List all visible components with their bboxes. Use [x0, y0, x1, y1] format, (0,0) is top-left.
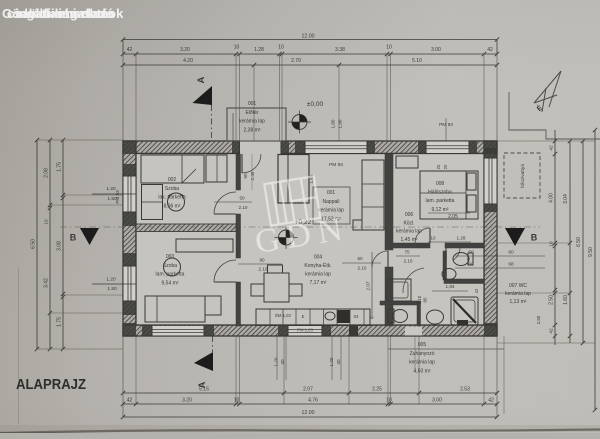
- wc sink: [442, 269, 456, 280]
- svg-text:10: 10: [431, 236, 436, 241]
- svg-text:50: 50: [239, 196, 245, 201]
- svg-text:kerámia lap: kerámia lap: [505, 291, 531, 297]
- svg-text:42: 42: [474, 288, 479, 293]
- svg-text:008: 008: [436, 181, 445, 187]
- wardrobe left szoba 002: [142, 185, 163, 220]
- left paper edge line: [18, 268, 20, 424]
- dim szoba003 door 90/2.10: [238, 263, 282, 265]
- svg-text:PM 1,03: PM 1,03: [297, 328, 313, 333]
- window top haloszoba: [426, 142, 469, 154]
- svg-text:003: 003: [166, 254, 175, 260]
- interior wall W7 (small wc horizontal): [380, 301, 417, 305]
- bed haloszoba: [420, 171, 478, 219]
- svg-text:90: 90: [243, 173, 248, 179]
- top dimension row 12.00: [123, 39, 497, 41]
- svg-text:Szoba: Szoba: [163, 263, 177, 269]
- svg-text:Hálószoba: Hálószoba: [428, 190, 452, 196]
- door entrance: [242, 154, 261, 173]
- left dim col 1.75/3.08/1.75: [62, 140, 64, 349]
- svg-text:42: 42: [488, 398, 494, 404]
- svg-text:2.08: 2.08: [44, 168, 50, 178]
- door kitchen-hall: [372, 251, 388, 267]
- desk szoba 003: [176, 239, 233, 252]
- vent block bottom wall: [349, 326, 358, 336]
- right dim col 3.04/1.60: [569, 141, 571, 343]
- kitchen counter: [256, 309, 370, 326]
- svg-text:2,50: 2,50: [536, 315, 541, 324]
- svg-text:lam. parketta: lam. parketta: [156, 272, 185, 278]
- svg-text:007 WC: 007 WC: [509, 283, 527, 289]
- svg-text:004: 004: [314, 255, 323, 261]
- svg-text:005: 005: [418, 342, 427, 348]
- door wc: [453, 248, 460, 260]
- interior wall W5 (wc/bath divider vertical): [443, 251, 447, 280]
- svg-text:10: 10: [44, 219, 49, 225]
- top dimension row segments: [123, 53, 497, 55]
- svg-text:3.42: 3.42: [44, 278, 50, 288]
- dim bath door 75/2.10: [396, 255, 420, 257]
- svg-text:80: 80: [423, 297, 428, 302]
- svg-text:10: 10: [234, 45, 240, 51]
- svg-text:lak. parketta: lak. parketta: [158, 195, 185, 201]
- left dim col 2.08/3.42: [49, 140, 51, 349]
- svg-text:±0,00: ±0,00: [307, 101, 324, 108]
- svg-text:ÉM 1,03: ÉM 1,03: [275, 313, 291, 318]
- svg-text:60: 60: [357, 256, 363, 261]
- interior wall W2 (szoba002/szoba003): [136, 224, 236, 232]
- section B line: [60, 226, 540, 228]
- svg-text:kerámia lap: kerámia lap: [409, 360, 435, 366]
- svg-text:1,90: 1,90: [338, 119, 343, 128]
- svg-text:2.10: 2.10: [239, 205, 248, 210]
- dim kitchen 2.07 vertical: [371, 252, 373, 317]
- svg-text:PM 93: PM 93: [115, 190, 120, 204]
- closet szoba 002: [206, 155, 227, 182]
- svg-text:3.04: 3.04: [563, 194, 569, 204]
- svg-text:1,80: 1,80: [331, 119, 336, 128]
- interior wall W4 (under haloszoba): [390, 243, 430, 248]
- top dimension row 4.20/2.70/5.10: [123, 64, 497, 66]
- left extension lines: [37, 139, 123, 141]
- window top nappali: [305, 142, 367, 154]
- exterior wall left: [123, 141, 136, 336]
- left dim col 6.50: [36, 140, 38, 349]
- svg-text:2.25: 2.25: [372, 387, 382, 393]
- opening bottom wall bath: [405, 327, 422, 336]
- watermark top-left overlapping site text: [2, 6, 124, 21]
- svg-text:kerámia lap: kerámia lap: [239, 119, 265, 125]
- svg-text:1.20: 1.20: [329, 357, 334, 366]
- entrance opening: [240, 140, 282, 155]
- armchair szoba 002: [168, 193, 185, 211]
- svg-text:42: 42: [549, 328, 555, 334]
- window bottom szoba003: [152, 326, 204, 336]
- svg-text:1.60: 1.60: [563, 295, 569, 305]
- dim szoba002 door 50/2.10: [214, 201, 252, 203]
- interior wall W3 (nappali/haloszoba): [385, 154, 393, 250]
- svg-text:60: 60: [468, 250, 474, 256]
- svg-text:8,06 m²: 8,06 m²: [164, 203, 181, 209]
- svg-text:2.40: 2.40: [250, 171, 255, 180]
- svg-text:2.70: 2.70: [291, 58, 301, 64]
- svg-text:2.50: 2.50: [549, 295, 555, 305]
- svg-text:001: 001: [248, 101, 257, 107]
- svg-text:60: 60: [468, 262, 474, 268]
- svg-text:ALAPRAJZ: ALAPRAJZ: [16, 376, 86, 393]
- svg-text:9,54 m²: 9,54 m²: [162, 280, 179, 286]
- svg-text:Előtér: Előtér: [245, 110, 258, 116]
- door szoba003: [214, 260, 236, 282]
- paper bottom edge: [0, 430, 600, 434]
- svg-text:3.20: 3.20: [180, 47, 190, 53]
- svg-text:2,38 m²: 2,38 m²: [244, 127, 261, 133]
- svg-text:kerámia lap: kerámia lap: [305, 272, 331, 278]
- dim kozl 10/1.28: [428, 241, 471, 243]
- bottom dimension row 12.00: [123, 416, 497, 418]
- door szoba002: [214, 192, 236, 214]
- svg-text:20: 20: [443, 164, 448, 169]
- svg-text:2,05: 2,05: [448, 214, 458, 220]
- right dim col 6.50: [582, 141, 584, 343]
- svg-text:10: 10: [386, 398, 392, 404]
- svg-text:42: 42: [549, 145, 555, 151]
- svg-text:4.20: 4.20: [183, 58, 193, 64]
- svg-text:3.38: 3.38: [335, 47, 345, 53]
- svg-text:B: B: [531, 233, 538, 243]
- svg-text:03: 03: [354, 314, 359, 319]
- svg-text:001: 001: [327, 190, 336, 196]
- svg-text:10: 10: [549, 241, 554, 247]
- svg-text:4.76: 4.76: [308, 398, 318, 404]
- section A marker bottom: [194, 352, 213, 371]
- north arrow: [534, 71, 561, 112]
- terrace line bottom right: [388, 348, 504, 350]
- svg-text:hőszivattyú: hőszivattyú: [520, 164, 526, 188]
- svg-text:1.28: 1.28: [254, 47, 264, 53]
- svg-text:1.75: 1.75: [57, 162, 63, 172]
- svg-text:6.50: 6.50: [576, 237, 582, 247]
- svg-text:3.08: 3.08: [57, 241, 63, 251]
- right dim col 9.50: [594, 130, 596, 410]
- svg-text:7,17 m²: 7,17 m²: [310, 280, 327, 286]
- svg-text:1,45 m²: 1,45 m²: [401, 237, 418, 243]
- svg-text:006: 006: [405, 212, 414, 218]
- right extension lines: [497, 140, 595, 142]
- bottom extension lines: [135, 336, 137, 404]
- exterior wall right: [484, 141, 497, 336]
- svg-text:6.50: 6.50: [31, 239, 37, 249]
- bath door arc: [403, 268, 424, 293]
- wardrobe haloszoba: [396, 156, 418, 168]
- section B marker left: [80, 228, 99, 245]
- svg-text:2.10: 2.10: [259, 267, 268, 272]
- svg-text:40: 40: [336, 359, 341, 365]
- watermark GDN logo: [247, 172, 352, 261]
- door haloszoba: [415, 228, 430, 243]
- svg-text:2.53: 2.53: [460, 387, 470, 393]
- level mark +-0,00: [292, 115, 307, 130]
- window right haloszoba: [485, 158, 497, 204]
- svg-text:20: 20: [436, 164, 441, 169]
- svg-text:2.10: 2.10: [404, 259, 413, 264]
- svg-text:2.07: 2.07: [366, 281, 371, 290]
- interior wall W6 (under wc): [444, 279, 484, 284]
- entry closet: [278, 155, 309, 204]
- right dim col 42/4.00/10/2.50/42: [554, 130, 556, 345]
- svg-text:9.50: 9.50: [588, 247, 594, 257]
- svg-text:A: A: [197, 381, 208, 388]
- svg-text:2.10: 2.10: [358, 266, 367, 271]
- svg-text:5.10: 5.10: [412, 58, 422, 64]
- floor inner edge: [136, 154, 484, 326]
- svg-text:kerámia lap: kerámia lap: [396, 229, 422, 235]
- plot boundary line: [509, 92, 600, 139]
- svg-text:42: 42: [127, 398, 133, 404]
- bath sink: [427, 310, 444, 324]
- wall piers: [123, 141, 136, 154]
- window left szoba002: [124, 176, 136, 212]
- svg-text:1,13 m²: 1,13 m²: [510, 299, 527, 305]
- svg-text:3.00: 3.00: [431, 47, 441, 53]
- bed szoba 003: [145, 296, 205, 322]
- exterior wall bottom: [123, 325, 497, 336]
- svg-text:1.20: 1.20: [106, 277, 116, 283]
- kitchen table: [264, 273, 289, 302]
- svg-text:2,10: 2,10: [417, 295, 422, 304]
- dim kitchen door 60/2.10: [342, 262, 381, 264]
- svg-text:Zuhanyozó: Zuhanyozó: [410, 351, 435, 357]
- svg-text:12.00: 12.00: [302, 410, 315, 416]
- right wc pointers: [455, 255, 545, 257]
- svg-text:Szoba: Szoba: [165, 186, 179, 192]
- svg-text:9,12 m²: 9,12 m²: [432, 207, 449, 213]
- bed szoba 002: [141, 155, 204, 183]
- svg-text:3.00: 3.00: [432, 398, 442, 404]
- room label 001 Nappali: [313, 187, 350, 224]
- svg-text:40: 40: [280, 359, 285, 365]
- nightstand szoba 003: [205, 296, 221, 315]
- svg-text:12.00: 12.00: [302, 34, 315, 40]
- dim 2.40/90 entry inner: [251, 154, 253, 190]
- svg-text:1,84: 1,84: [446, 284, 455, 289]
- window bottom kitchen: [288, 326, 322, 336]
- svg-text:Nappali: Nappali: [323, 199, 340, 205]
- exterior wall top: [123, 141, 497, 154]
- top extension lines: [135, 54, 137, 141]
- svg-text:1.20: 1.20: [274, 357, 279, 366]
- interior wall W1 (left rooms / center): [236, 154, 241, 190]
- svg-text:10: 10: [278, 45, 284, 51]
- svg-text:2.07: 2.07: [303, 387, 313, 393]
- small wc toilet: [388, 309, 394, 323]
- level mark +0,22: [279, 230, 294, 245]
- bottom dimension row 5.15/2.07/2.25/2.53: [123, 392, 497, 394]
- interior wall W8 (small wc vertical): [417, 301, 421, 326]
- svg-text:42: 42: [127, 47, 133, 53]
- svg-text:B: B: [70, 233, 77, 243]
- svg-text:42: 42: [487, 47, 493, 53]
- sofa nappali: [362, 160, 384, 230]
- svg-text:1.28: 1.28: [457, 236, 466, 241]
- svg-text:60: 60: [508, 250, 514, 256]
- bottom dimension row segments: [123, 403, 497, 405]
- section A marker top: [193, 86, 213, 105]
- heat pump hoszivattyu: [504, 153, 540, 198]
- svg-text:10: 10: [386, 45, 392, 51]
- svg-text:3.20: 3.20: [182, 398, 192, 404]
- svg-text:4,50 m²: 4,50 m²: [414, 368, 431, 374]
- chair szoba 003: [164, 258, 181, 276]
- section B marker right: [505, 228, 525, 246]
- svg-text:002: 002: [168, 177, 177, 183]
- svg-text:75: 75: [404, 250, 410, 255]
- porch outline 001 Eloter: [227, 108, 286, 141]
- svg-text:Közl.: Közl.: [403, 220, 414, 226]
- svg-text:68: 68: [508, 262, 514, 268]
- bath shower: [451, 297, 478, 325]
- wc toilet: [453, 253, 469, 266]
- svg-text:ingatlanhirdetés: ingatlanhirdetés: [15, 6, 115, 21]
- svg-text:4.00: 4.00: [549, 193, 555, 203]
- svg-text:PM 93: PM 93: [329, 162, 343, 168]
- svg-text:Konyha-Étk.: Konyha-Étk.: [304, 262, 331, 269]
- bath tray square: [387, 279, 411, 301]
- window left szoba003: [124, 266, 136, 301]
- svg-text:1.50: 1.50: [107, 286, 117, 292]
- left window pointers: [92, 193, 136, 195]
- svg-text:10: 10: [234, 398, 240, 404]
- svg-text:E: E: [302, 314, 305, 319]
- svg-text:A: A: [196, 76, 207, 83]
- svg-text:lam. parketta: lam. parketta: [426, 198, 455, 204]
- svg-text:1.75: 1.75: [57, 317, 63, 327]
